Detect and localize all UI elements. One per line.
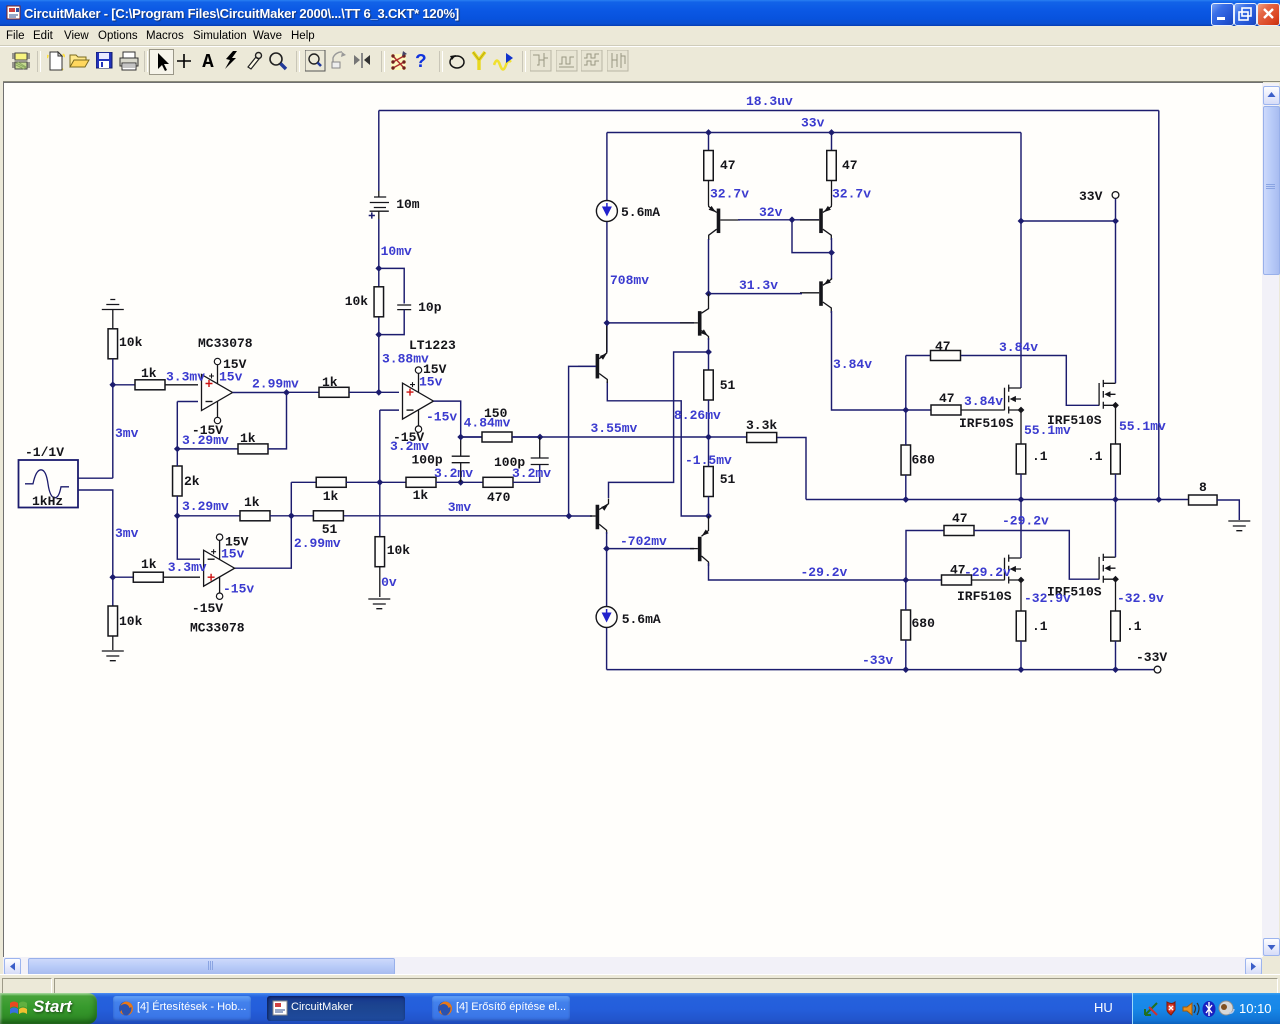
svg-text:3.2mv: 3.2mv <box>390 439 429 454</box>
svg-text:31.3v: 31.3v <box>739 278 778 293</box>
wire output rail <box>806 499 1188 501</box>
resistor 1k input-2 <box>113 576 134 578</box>
resistor 47 upper-right <box>831 133 833 152</box>
svg-text:47: 47 <box>939 391 955 406</box>
node T2-T3 <box>828 249 835 256</box>
svg-text:32.7v: 32.7v <box>710 187 749 202</box>
svg-text:10k: 10k <box>119 335 143 350</box>
svg-text:-32.9v: -32.9v <box>1117 591 1164 606</box>
resistor 1k feedback-1 <box>177 448 238 450</box>
svg-text:.1: .1 <box>1032 449 1048 464</box>
resistor 47 row1 <box>906 355 930 357</box>
wire source bottom pin <box>78 490 113 577</box>
svg-text:-33v: -33v <box>862 653 893 668</box>
svg-text:-29.2v: -29.2v <box>801 565 848 580</box>
svg-text:51: 51 <box>322 522 338 537</box>
svg-text:-15v: -15v <box>426 410 457 425</box>
resistor 51 input <box>291 515 313 517</box>
wire 47-row3 left leg <box>906 531 944 581</box>
svg-text:33V: 33V <box>1079 189 1103 204</box>
resistor 47 upper-left <box>708 133 710 152</box>
transistor Q3 <box>698 311 702 336</box>
wire to lower current source <box>606 549 608 606</box>
svg-text:10k: 10k <box>345 294 369 309</box>
resistor 47 row4 <box>906 579 942 581</box>
wire 31.3v T3 base <box>709 293 803 295</box>
node -29.2v net <box>902 577 909 584</box>
svg-text:10k: 10k <box>119 614 143 629</box>
current source I1 5.6mA <box>596 201 617 222</box>
svg-text:1k: 1k <box>141 557 157 572</box>
resistor 51 upper <box>704 370 714 400</box>
resistor 10k top-left <box>108 329 118 359</box>
node 10k-10p top <box>375 265 382 272</box>
svg-text:1k: 1k <box>141 366 157 381</box>
terminal 33V <box>1112 192 1119 199</box>
svg-text:-15v: -15v <box>223 582 254 597</box>
svg-text:3mv: 3mv <box>448 500 472 515</box>
transistor T1 <box>717 209 721 234</box>
wire 3.84v riser from T3 <box>832 311 906 410</box>
capacitor 10m electrolytic <box>374 197 386 208</box>
svg-text:15v: 15v <box>219 370 243 385</box>
wire mid 10k to ground <box>379 482 381 536</box>
node 47-left top <box>705 129 712 136</box>
svg-text:8: 8 <box>1199 480 1207 495</box>
signal source V1 <box>19 460 79 508</box>
op-amp U1 MC33078 upper <box>202 375 233 411</box>
svg-text:2.99mv: 2.99mv <box>252 377 299 392</box>
resistor 1k f <box>380 481 406 483</box>
svg-text:47: 47 <box>935 339 951 354</box>
wire input to QLL base <box>569 515 592 517</box>
wire M2 drain riser <box>1115 221 1117 383</box>
node output-rail right <box>1155 496 1162 503</box>
wire T1 collector down <box>708 239 710 294</box>
svg-text:3.3mv: 3.3mv <box>168 560 207 575</box>
transistor QUL <box>596 354 600 379</box>
node 51L-QLR <box>705 513 712 520</box>
wire node A <box>112 359 114 478</box>
node rail-M2 <box>1112 496 1119 503</box>
svg-text:.1: .1 <box>1126 619 1142 634</box>
svg-text:-1/1V: -1/1V <box>25 445 64 460</box>
svg-text:3.2mv: 3.2mv <box>512 466 551 481</box>
current source I2 5.6mA <box>596 607 617 628</box>
transistor QLR <box>698 537 702 562</box>
wire 3.55mv rail <box>461 436 709 438</box>
resistor 1k input-1 <box>113 384 135 386</box>
wire node to QLL-emitter riser <box>609 352 709 498</box>
svg-text:3mv: 3mv <box>115 526 139 541</box>
transistor QLL <box>596 505 600 530</box>
svg-text:708mv: 708mv <box>610 273 649 288</box>
node 47-right top <box>828 129 835 136</box>
node rail-M4 <box>1112 666 1119 673</box>
capacitor 100p left <box>452 456 470 463</box>
resistor 1k g <box>291 481 316 483</box>
wire QLL collector to -702mv node <box>606 532 608 549</box>
mosfet M1 IRF510S upper-left <box>1004 388 1006 411</box>
svg-text:470: 470 <box>487 490 511 505</box>
node 2.99mv lower <box>288 512 295 519</box>
svg-text:?: ? <box>415 51 426 71</box>
svg-text:3mv: 3mv <box>115 426 139 441</box>
resistor 3.3k <box>709 436 747 438</box>
wire bottom rail -33v <box>607 669 1154 671</box>
svg-text:1k: 1k <box>244 495 260 510</box>
capacitor 10p <box>379 268 404 303</box>
op-amp U3 LT1223 <box>403 383 434 419</box>
wire U1 output 2.99mv <box>233 392 287 394</box>
ground mid <box>368 599 390 609</box>
svg-text:55.1mv: 55.1mv <box>1119 419 1166 434</box>
transistor T3 <box>819 281 823 306</box>
svg-text:-702mv: -702mv <box>620 534 667 549</box>
svg-text:3.3mv: 3.3mv <box>166 370 205 385</box>
mosfet M4 IRF510S lower-right <box>1098 557 1100 580</box>
svg-text:-29.2v: -29.2v <box>1002 514 1049 529</box>
svg-text:680: 680 <box>912 453 936 468</box>
wire QLR emitter -29.2v <box>709 563 906 580</box>
resistor 51 lower <box>704 467 714 497</box>
wire T2 emitter to node <box>831 238 833 280</box>
svg-text:3.55mv: 3.55mv <box>591 421 638 436</box>
node 3.84v net <box>902 407 909 414</box>
svg-text:680: 680 <box>912 616 936 631</box>
ground output <box>1228 521 1250 531</box>
wire M1 drain riser <box>1020 221 1022 388</box>
wire QLR base <box>607 548 694 550</box>
node rail-M3 <box>1018 666 1025 673</box>
svg-text:51: 51 <box>720 472 736 487</box>
resistor 10k mid <box>375 537 385 567</box>
wire U1 inverting <box>177 401 198 403</box>
svg-text:-1.5mv: -1.5mv <box>685 453 732 468</box>
wire U3 inverting <box>380 409 399 411</box>
svg-text:1kHz: 1kHz <box>32 494 63 509</box>
svg-text:.1: .1 <box>1032 619 1048 634</box>
svg-text:150: 150 <box>484 406 508 421</box>
ground top-left <box>102 300 124 310</box>
svg-text:-33V: -33V <box>1136 650 1167 665</box>
resistor 150 <box>461 436 482 438</box>
svg-text:33v: 33v <box>801 116 825 131</box>
svg-text:5.6mA: 5.6mA <box>622 612 661 627</box>
svg-text:3.84v: 3.84v <box>964 394 1003 409</box>
svg-text:-15V: -15V <box>192 601 223 616</box>
transistor T2 <box>819 209 823 234</box>
svg-text:-29.2v: -29.2v <box>964 565 1011 580</box>
capacitor 100p right <box>531 458 549 465</box>
wire I2 to rail <box>606 628 608 670</box>
svg-text:10mv: 10mv <box>381 244 412 259</box>
svg-text:47: 47 <box>720 158 736 173</box>
resistor 1k c <box>319 387 349 397</box>
wire top 18.3uv rail <box>379 110 1159 112</box>
mosfet M3 IRF510S lower-left <box>1004 558 1006 581</box>
resistor 680 lower <box>901 610 911 640</box>
resistor 10k bottom-left <box>112 577 114 606</box>
svg-text:8.26mv: 8.26mv <box>674 408 721 423</box>
wire U2 inverting riser <box>177 516 200 559</box>
svg-text:2k: 2k <box>184 474 200 489</box>
svg-text:3.29mv: 3.29mv <box>182 499 229 514</box>
svg-text:18.3uv: 18.3uv <box>746 94 793 109</box>
svg-text:32.7v: 32.7v <box>832 187 871 202</box>
node 150/100p <box>537 434 544 441</box>
svg-text:3.3k: 3.3k <box>746 418 777 433</box>
resistor .1 M1 <box>1016 444 1026 474</box>
node 1k-g row <box>376 479 383 486</box>
svg-text:55.1mv: 55.1mv <box>1024 423 1071 438</box>
wire 33v rail <box>607 132 1021 134</box>
resistor .1 M2 <box>1111 444 1121 474</box>
svg-text:10k: 10k <box>387 543 411 558</box>
resistor 47 row3 <box>944 526 974 536</box>
wire QUL emitter top <box>606 323 608 326</box>
node Q3 base tap <box>604 320 611 327</box>
resistor 1k feedback-2 <box>177 515 240 517</box>
svg-text:3.84v: 3.84v <box>833 357 872 372</box>
svg-text:5.6mA: 5.6mA <box>621 205 660 220</box>
wire 33V to rail <box>1021 199 1116 222</box>
node input 3mv <box>566 513 573 520</box>
resistor 8 output <box>1189 495 1218 505</box>
svg-text:47: 47 <box>952 511 968 526</box>
svg-text:15v: 15v <box>221 546 245 561</box>
wire U3 output <box>434 401 461 437</box>
svg-text:47: 47 <box>842 158 858 173</box>
resistor 680 upper <box>901 445 911 475</box>
svg-text:1k: 1k <box>322 375 338 390</box>
wire QUL base riser <box>569 366 596 516</box>
wire U2 output <box>235 482 292 568</box>
resistor .1 M4 <box>1111 611 1121 641</box>
svg-text:IRF510S: IRF510S <box>957 589 1012 604</box>
wire 47-row1 left leg <box>905 356 907 411</box>
node LT out <box>457 434 464 441</box>
svg-text:3.88mv: 3.88mv <box>382 352 429 367</box>
node Q3-51 <box>705 349 712 356</box>
svg-text:MC33078: MC33078 <box>190 621 245 636</box>
svg-text:IRF510S: IRF510S <box>959 416 1014 431</box>
svg-text:100p: 100p <box>412 453 443 468</box>
svg-text:-32.9v: -32.9v <box>1024 591 1071 606</box>
svg-text:3.2mv: 3.2mv <box>434 466 473 481</box>
svg-text:MC33078: MC33078 <box>198 336 253 351</box>
node rail-680 <box>902 496 909 503</box>
wire 708mv <box>606 222 608 352</box>
node 8.26mv <box>705 434 712 441</box>
mosfet M2 IRF510S upper-right <box>1098 383 1100 406</box>
node 31.3v <box>705 290 712 297</box>
svg-text:3.29mv: 3.29mv <box>182 433 229 448</box>
svg-text:32v: 32v <box>759 205 783 220</box>
node -702mv <box>603 545 610 552</box>
wire 10mv <box>378 219 380 392</box>
node rail-M1 <box>1018 496 1025 503</box>
node rail-680L <box>902 666 909 673</box>
svg-text:1k: 1k <box>240 431 256 446</box>
resistor 2k <box>173 466 183 496</box>
svg-text:.1: .1 <box>1087 449 1103 464</box>
terminal -33V <box>1154 666 1161 673</box>
svg-text:10m: 10m <box>396 197 420 212</box>
node 10k-10p bottom <box>375 331 382 338</box>
wire Q3 base <box>607 322 694 324</box>
node 100p-1 <box>457 479 464 486</box>
svg-text:3.84v: 3.84v <box>999 340 1038 355</box>
resistor 470 <box>461 481 483 483</box>
svg-text:0v: 0v <box>381 575 397 590</box>
node 33V-left <box>1018 218 1025 225</box>
wire QUL collector loop <box>607 382 708 517</box>
svg-text:2.99mv: 2.99mv <box>294 536 341 551</box>
ground bottom-left <box>102 651 124 661</box>
wire T1-T2 base tie 32v <box>738 219 819 221</box>
wire Q3 emitter <box>708 338 710 371</box>
resistor .1 M3 <box>1016 611 1026 641</box>
node 33V-right <box>1112 218 1119 225</box>
svg-text:15v: 15v <box>419 375 443 390</box>
resistor 47 row2 <box>906 409 931 411</box>
svg-text:1k: 1k <box>413 488 429 503</box>
svg-text:51: 51 <box>720 378 736 393</box>
svg-text:A: A <box>202 52 214 69</box>
svg-text:1k: 1k <box>323 489 339 504</box>
svg-text:10p: 10p <box>418 300 442 315</box>
wire source top pin <box>78 477 113 479</box>
op-amp U2 MC33078 lower <box>204 550 235 586</box>
resistor 10k upper-mid <box>374 287 384 317</box>
wire U3 noninverting <box>287 391 320 393</box>
